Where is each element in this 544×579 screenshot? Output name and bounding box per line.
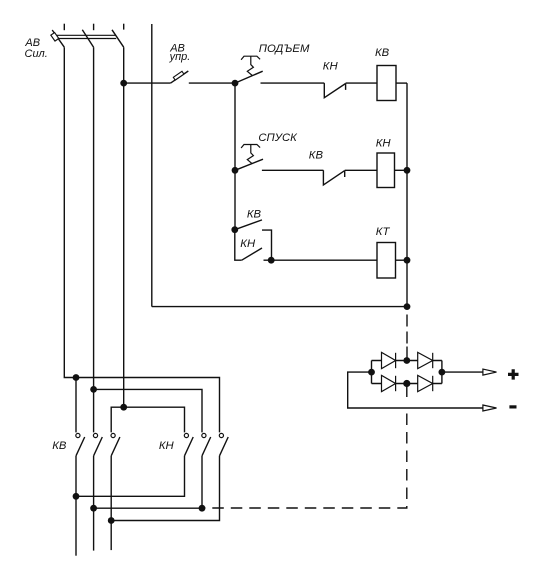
wire KN2 bottom to L2 [201,456,203,508]
node H2 KV2 tap [90,386,97,393]
plus symbol [508,369,519,379]
diode D1 top-left [382,352,396,368]
wire plus output [442,371,483,373]
wire row1 node down to row2 node [234,83,236,170]
breaker AB Sil. handle square [51,33,59,42]
coil KN [377,153,395,188]
wire phase B vertical to KV2 contact [93,47,95,432]
node H3 phase C tap [120,404,127,411]
wire coil KT to right rail [396,259,408,261]
arrowhead plus [483,369,497,375]
wire coil KV to right rail [396,82,407,84]
wire row2 button to KV NC contact [262,169,324,171]
wire KN3 bottom to L3 [111,456,219,521]
diode D2 top-right [418,352,433,368]
node L2 motor tap [90,505,97,512]
wire row2 NC to coil KN [345,169,377,171]
contact KV aux NO blade row3 [235,220,262,230]
node L1 motor tap [73,493,80,500]
wire control left rail [151,24,153,307]
contact KV2 power pole [93,433,102,455]
rectifier bridge top rail [372,360,442,362]
node bridge right [439,369,446,376]
node right rail bottom [404,303,411,310]
wire rail stub below bottom rail [406,307,408,310]
wire row2 node down to row3 [234,170,236,229]
contact KN1 power pole [184,433,193,455]
node bridge bottom [403,380,410,387]
wire KN1 bottom to L1 [76,456,185,497]
svg-text:упр.: упр. [169,51,191,63]
svg-text:КВ: КВ [52,440,67,452]
wire motor line 2 [93,456,95,551]
contact KV1 power pole [76,433,85,455]
contact KN3 power pole [219,433,228,455]
wire row1 NC to coil KV [346,82,377,84]
rectifier bridge bottom rail [372,383,442,385]
node right rail row3 [404,257,411,264]
breaker AB upr. blade [171,71,189,83]
wire dashed brake feed from bridge bottom [406,384,408,398]
svg-text:КН: КН [159,440,175,452]
wire L2 horizontal [94,507,202,509]
breaker AB Sil. phase stub 3 [123,24,125,30]
button SPUSK stem zigzag [247,145,253,164]
svg-text:СПУСК: СПУСК [258,132,298,144]
button PODEM head bracket [241,56,260,60]
wire dashed rail to bridge [406,315,408,346]
button PODEM blade [235,71,263,83]
node row3 KV aux pivot [231,226,238,233]
breaker AB Sil. blade pole 1 [52,30,64,47]
breaker AB Sil. phase stub 1 [63,24,65,31]
node row1 buttons junction [232,80,239,87]
wire control bottom rail [152,306,407,308]
rectifier bridge left side [371,361,373,384]
wire KV aux fixed hook [262,230,272,260]
button PODEM stem zigzag [247,56,253,75]
breaker AB Sil. tie bar [56,35,117,38]
wire control feed from phase C [124,82,171,84]
svg-text:ПОДЪЕМ: ПОДЪЕМ [259,43,310,55]
svg-text:КВ: КВ [247,209,262,221]
breaker AB Sil. blade pole 2 [82,30,93,47]
wire phase B branch to KN2 [94,389,202,432]
arrowhead minus [483,405,497,411]
svg-text:КВ: КВ [309,150,324,162]
svg-text:Сил.: Сил. [25,48,48,60]
contact KN aux NO blade row3 [242,248,262,260]
node phase C / control feed [120,80,127,87]
contact KV NC row2 [323,170,344,185]
rectifier bridge right side [441,361,443,384]
wire row3 to coil KT [264,259,378,261]
breaker AB upr. handle square [173,71,184,80]
breaker AB Sil. phase stub 2 [93,24,95,31]
wire row3 left drop [235,230,242,261]
button SPUSK head bracket [241,145,260,149]
wire dashed brake feed vertical and horizontal [202,414,407,509]
svg-text:КТ: КТ [376,226,391,238]
wire row1 button to KN NC contact [261,82,325,84]
minus symbol [509,405,516,408]
wire AB upr. to row1 node [189,82,235,84]
wire KV1 drop from phase A bridge [75,378,77,433]
wire coil KN to right rail [395,169,408,171]
svg-text:КН: КН [376,138,392,150]
node bridge top [403,357,410,364]
node L3 motor tap [108,517,115,524]
wire phase A vertical + upper bridge to KN3 [64,47,219,432]
svg-text:КН: КН [323,60,339,72]
diode D4 bottom-right [418,375,433,391]
node H1 KV1 tap [73,374,80,381]
contact KN2 power pole [202,433,211,455]
coil KT [377,243,396,279]
wire motor line 1 [75,456,77,556]
wire motor line 3 [110,456,112,550]
node L2 brake tap [199,505,206,512]
contact KV3 power pole [111,433,120,455]
coil KV [377,66,396,101]
button SPUSK blade [235,159,263,170]
wire cross bridge KV3 to KN1 [111,407,184,432]
wire minus output [348,372,483,408]
wire control right rail [406,83,408,307]
contact KN NC row1 [324,83,345,98]
wire rail into bridge top [406,347,408,361]
node right rail row2 [404,167,411,174]
svg-text:КВ: КВ [375,47,390,59]
breaker AB Sil. blade pole 3 [112,30,124,47]
svg-text:КН: КН [240,238,256,250]
diode D3 bottom-left [382,375,396,391]
node row2 junction [232,167,239,174]
wire phase C vertical [123,47,125,407]
node row3 aux contacts join [268,257,275,264]
node bridge left [368,369,375,376]
